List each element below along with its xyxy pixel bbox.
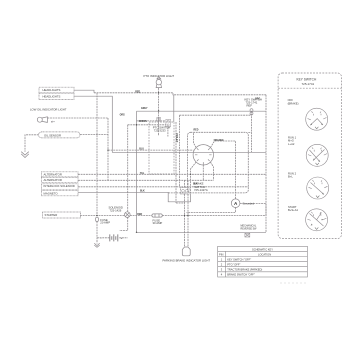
wire violet1 drop to stem [176, 202, 185, 204]
ground battery [94, 243, 99, 247]
svg-text:OIL SENSOR: OIL SENSOR [44, 133, 61, 137]
wire violet2 [179, 115, 181, 187]
starter box [42, 212, 80, 218]
svg-text:REF: REF [247, 104, 253, 108]
wire circle SW leg [191, 162, 197, 194]
schematic key table [218, 246, 308, 277]
alternator box 2 [41, 177, 78, 182]
fuse 30 amp horizontal [152, 214, 162, 217]
wire left bus x97 lower to ground [96, 222, 98, 244]
wire circle S pin down [202, 165, 204, 180]
wire A right to edge [240, 204, 266, 216]
svg-text:VIOLET: VIOLET [175, 133, 179, 143]
svg-text:ORANGE: ORANGE [214, 139, 225, 142]
wire battery left [97, 237, 109, 239]
low oil indicator bulb [37, 117, 47, 123]
svg-text:725-1426: 725-1426 [110, 208, 122, 212]
faint dots bottom right [281, 283, 306, 284]
wire pto light stem and left contact [158, 88, 160, 136]
wire bus x127.7 below solenoid [119, 217, 127, 230]
svg-text:ALTERNATOR: ALTERNATOR [44, 178, 62, 182]
pto switch box [149, 122, 174, 174]
svg-text:+: + [121, 236, 123, 240]
magneto box [41, 190, 78, 196]
svg-text:RED: RED [137, 214, 142, 216]
wire mid bus x108 [107, 118, 109, 180]
wire y115 [180, 114, 252, 116]
svg-text:1: 1 [221, 257, 223, 261]
solenoid circle [125, 212, 131, 218]
wire alternator2 brake run [78, 179, 214, 181]
wire violet1 [175, 122, 177, 203]
key panel position labels [288, 98, 299, 212]
svg-text:B+S+A1: B+S+A1 [288, 208, 299, 212]
wire solid mid bus x136.5 [136, 111, 138, 232]
svg-text:LOW OIL INDICATOR LIGHT: LOW OIL INDICATOR LIGHT [30, 108, 67, 112]
svg-text:ORG: ORG [120, 115, 125, 117]
component texts [30, 74, 262, 263]
mechanical reverse switch box [245, 233, 250, 237]
wire labels [120, 91, 261, 216]
wire circle SE leg [210, 162, 213, 180]
key switch panel box [278, 73, 341, 239]
svg-text:RED: RED [135, 91, 140, 93]
svg-text:2: 2 [221, 263, 223, 267]
svg-text:725-1427A: 725-1427A [194, 188, 208, 192]
wire bus x127.7 [127, 125, 129, 212]
wire parking bulb stems [185, 194, 189, 247]
svg-text:725-1741: 725-1741 [302, 82, 315, 86]
key switch inner dashed box [188, 132, 249, 193]
svg-text:725-3233: 725-3233 [154, 129, 166, 133]
wire brake legs [185, 180, 189, 187]
pto connector oo 1 [157, 118, 161, 122]
wire stub y132.6 [248, 132, 251, 134]
svg-text:BLU: BLU [139, 148, 144, 150]
wire A bottom down [187, 208, 236, 213]
wire alternator3 [78, 186, 248, 188]
wire alternator1 yel [78, 173, 266, 175]
wire battery right riser [119, 237, 127, 239]
svg-text:4: 4 [221, 273, 223, 277]
wire starter row y215.5 [80, 215, 125, 217]
wire solid battery row y232.3 [137, 231, 267, 233]
small arrow under oil bulb wire [51, 121, 55, 123]
svg-text:YEL: YEL [140, 173, 145, 175]
svg-text:ALTERNATOR: ALTERNATOR [44, 173, 62, 177]
svg-text:REVERSE SW: REVERSE SW [241, 227, 258, 230]
svg-text:GREEN: GREEN [139, 121, 148, 123]
wire solid y111 grey run [137, 110, 267, 112]
svg-text:(BRAKE): (BRAKE) [288, 101, 299, 105]
wire circle NE orange [210, 141, 235, 199]
key connector circle [193, 145, 213, 165]
headlight box 2 [39, 93, 74, 99]
svg-text:GREY: GREY [141, 108, 148, 110]
svg-text:PARKING BRAKE INDICATOR LIGHT: PARKING BRAKE INDICATOR LIGHT [163, 259, 211, 263]
pto connector oo 2 [166, 119, 171, 126]
svg-text:KEY SWITCH "OFF": KEY SWITCH "OFF" [227, 257, 251, 261]
svg-text:PIN: PIN [219, 252, 223, 256]
oil sensor box [39, 132, 80, 138]
svg-text:BLK: BLK [140, 191, 145, 193]
interlock box [41, 184, 78, 190]
svg-text:B+L: B+L [288, 175, 293, 179]
parking brake bulb [182, 247, 190, 256]
wire oo riser x251.5 [251, 111, 253, 152]
svg-text:PTO "OFF": PTO "OFF" [227, 263, 240, 267]
wire oil sensor right [80, 134, 108, 136]
alternator box 1 [41, 172, 78, 177]
rotary diagram RUN2 [307, 177, 329, 199]
key switch inline connector oo [250, 109, 253, 115]
svg-text:BRAKE SWITCH "OFF": BRAKE SWITCH "OFF" [227, 273, 255, 277]
svg-text:SCHEMATIC KEY: SCHEMATIC KEY [252, 247, 273, 251]
battery symbol [110, 234, 118, 241]
svg-text:STARTER: STARTER [45, 213, 58, 217]
svg-text:3: 3 [221, 268, 223, 272]
rotary diagram RUN1 [306, 144, 328, 166]
wire fuse30 to right corner [162, 215, 266, 217]
svg-text:LOCATION: LOCATION [258, 252, 271, 256]
svg-text:L+A2: L+A2 [288, 142, 295, 146]
rotary diagram OFF [306, 108, 328, 130]
wire BLU to connector circle [108, 149, 194, 151]
wire solid headlight1 stub [74, 90, 94, 93]
wire solid headlight2 long run [74, 96, 266, 152]
svg-text:HEADLIGHTS: HEADLIGHTS [43, 88, 61, 92]
svg-text:INTERLOCK SOLENOID: INTERLOCK SOLENOID [44, 184, 75, 188]
ground oil sensor [21, 152, 29, 158]
pto indicator bulb [156, 77, 161, 88]
svg-text:Grounded: Grounded [243, 202, 255, 206]
svg-text:OFF: OFF [288, 98, 294, 102]
brake switch connector box [181, 188, 190, 195]
rotary diagram START [306, 209, 328, 231]
wire circle NW to red riser [194, 132, 197, 147]
wire solid magneto run [78, 192, 191, 202]
wire pto contacts right [167, 127, 169, 137]
wire solenoid to fuse30 [130, 215, 152, 217]
wire green y120.9 [137, 120, 166, 122]
svg-text:30 AMP: 30 AMP [153, 221, 163, 225]
wire org y124.8 [128, 124, 167, 126]
headlight box 1 [39, 87, 74, 93]
wire headlight1 to key switch outline top [94, 93, 266, 95]
wire solid pto box top riser [173, 95, 175, 122]
svg-text:RED: RED [194, 130, 199, 132]
svg-text:HEADLIGHTS: HEADLIGHTS [43, 95, 61, 99]
wire oil bulb to mid bus [47, 117, 108, 119]
svg-text:TRACTOR BRAKE (PARKED): TRACTOR BRAKE (PARKED) [227, 268, 262, 272]
wire oil sensor left to ground [25, 135, 39, 152]
svg-text:A: A [234, 201, 238, 206]
wire magneto dashed stub [168, 192, 187, 194]
circled A ammeter [231, 199, 240, 208]
fuse 20 amp vertical [96, 217, 99, 221]
junction dots [96, 92, 191, 233]
wire left bus x97 [96, 93, 98, 216]
svg-text:PTO INDICATOR LIGHT: PTO INDICATOR LIGHT [144, 74, 175, 78]
svg-text:MAGNETO: MAGNETO [44, 191, 59, 195]
svg-text:20 AMP: 20 AMP [100, 221, 110, 225]
svg-text:-: - [101, 236, 102, 240]
wire right edge x266 [265, 95, 267, 233]
